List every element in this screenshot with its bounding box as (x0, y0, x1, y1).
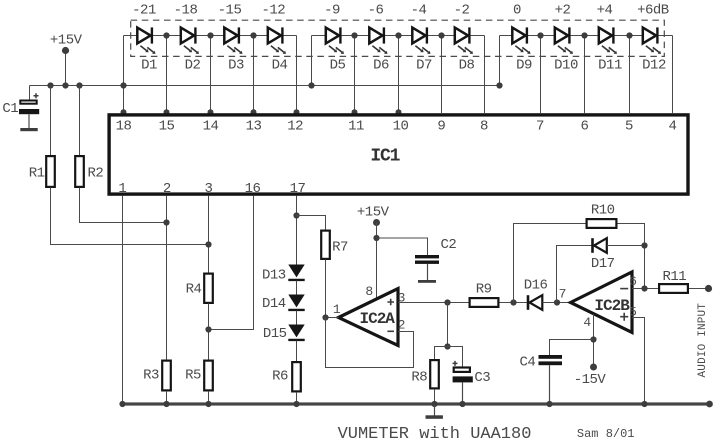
ground under C1 (20, 128, 37, 131)
junction LED row x=441.5 (438, 32, 444, 38)
wire IC2B pin 4 to -15V (593, 314, 595, 367)
pin dot IC1 top x=253.5 (251, 109, 257, 115)
junction +15V rail x=65.5 (62, 82, 68, 88)
svg-text:5: 5 (625, 119, 633, 135)
svg-text:10: 10 (393, 119, 409, 135)
pin dot IC1 top x=210.5 (208, 109, 214, 115)
wire LED group2 anode feed (311, 36, 313, 86)
junction pin3/R8C3 tap (444, 299, 450, 305)
label D4 (272, 57, 288, 73)
diode D15 (288, 325, 304, 340)
wire LED junction to IC1 pin 15 (166, 36, 168, 114)
label D3 (228, 57, 244, 73)
wire LED chain D1-D4 to pin 12 (124, 36, 297, 114)
pin 3 IC1 bottom (205, 181, 213, 197)
resistor R2 body (75, 156, 84, 187)
label R3 (143, 368, 159, 384)
svg-text:D10: D10 (554, 57, 578, 73)
capacitor C2 (415, 255, 439, 280)
svg-text:VUMETER with UAA180: VUMETER with UAA180 (338, 425, 532, 443)
LED D10 (555, 27, 573, 54)
svg-text:R3: R3 (143, 368, 159, 384)
IC U1 (IC1 UAA180) body (109, 115, 688, 194)
pin 2 IC1 bottom (163, 181, 171, 197)
svg-text:D6: D6 (373, 57, 389, 73)
label C2 (440, 237, 456, 253)
resistor R3 body (162, 361, 171, 391)
svg-text:3: 3 (205, 181, 213, 197)
svg-text:D16: D16 (524, 278, 548, 294)
svg-text:0: 0 (513, 3, 521, 19)
label C3 (474, 370, 490, 386)
pin 9 IC1 top (437, 119, 445, 135)
wire IC1 pin 16 to R4/R5 node (209, 196, 254, 330)
wire R2 top lead (79, 86, 81, 156)
resistor R7 body (321, 231, 330, 259)
svg-text:R2: R2 (87, 166, 103, 182)
wire to C4 (550, 340, 594, 356)
svg-text:IC1: IC1 (370, 147, 400, 167)
label 0 dB (513, 3, 521, 19)
wire R2 bottom to pin 2 node (80, 188, 167, 223)
node +15V terminal (62, 47, 69, 54)
label IC2A (359, 310, 395, 328)
svg-text:-6: -6 (368, 3, 384, 19)
label -2 dB (454, 3, 470, 19)
wire IC2A feedback loop to pin 2 (326, 318, 414, 368)
wire tap down (447, 303, 449, 347)
svg-text:13: 13 (246, 119, 262, 135)
ground rail (121, 402, 713, 405)
wire D15 to R6 (296, 341, 298, 362)
pin 6 IC1 top (581, 119, 589, 135)
wire IC2A pin 3 to R9 (398, 302, 469, 304)
op-amp U2A (IC2A) (339, 289, 399, 346)
junction ground rail x=549.5 (546, 401, 552, 407)
label D2 (185, 57, 201, 73)
pin 13 IC1 top (246, 119, 262, 135)
svg-text:4: 4 (583, 315, 591, 330)
svg-text:D17: D17 (591, 256, 615, 272)
wire LED junction to IC1 pin 7 (540, 36, 542, 114)
node ground rail right terminal (706, 401, 713, 408)
wire D17 branch from pin 7 (557, 246, 592, 303)
label -15 dB (218, 3, 242, 19)
wire R10 to pin 6 node (618, 224, 645, 289)
wire IC1 pin 3 to R4 (208, 196, 210, 274)
label R9 (476, 282, 492, 298)
svg-text:14: 14 (203, 119, 219, 135)
resistor R4 body (204, 274, 213, 303)
svg-text:-18: -18 (174, 3, 198, 19)
label D7 (416, 57, 432, 73)
pin 2 IC2A (398, 318, 405, 333)
svg-text:+15V: +15V (50, 33, 83, 49)
junction R9/R10 tap (510, 299, 516, 305)
LED D9 (512, 27, 530, 54)
svg-text:7: 7 (559, 286, 566, 301)
pin 5 IC2B (629, 305, 636, 320)
pin dot IC1 top x=123.5 (121, 109, 127, 115)
label D15 (263, 326, 287, 342)
pin 4 IC2B (583, 315, 591, 330)
wire R1 bottom to pin 3 node (51, 188, 209, 245)
junction pin4/C4 (590, 336, 596, 342)
wire R11 to audio input terminal (689, 288, 709, 290)
svg-text:+4: +4 (597, 3, 613, 19)
pin 17 IC1 bottom (290, 181, 306, 197)
label R8 (411, 370, 427, 386)
LED D12 (643, 27, 661, 54)
wire +15V top rail (30, 85, 500, 87)
junction R8/C3 split (444, 343, 450, 349)
capacitor C1 (polarised) (19, 93, 39, 128)
svg-text:-15: -15 (218, 3, 242, 19)
pin 1 IC1 bottom (118, 181, 126, 197)
wire LED group1 anode feed / pin 18 drop (123, 36, 125, 114)
pin 7 IC2B (559, 286, 566, 301)
svg-text:-15V: -15V (574, 372, 607, 388)
label IC1 (370, 147, 400, 167)
svg-text:9: 9 (437, 119, 445, 135)
label -21 dB (132, 3, 156, 19)
svg-text:D4: D4 (272, 57, 288, 73)
junction D17/R10 (641, 242, 647, 248)
label +15V supply (top left) (50, 33, 83, 49)
ground symbol (426, 405, 443, 419)
svg-text:2: 2 (398, 318, 405, 333)
node +15V terminal IC2A (373, 219, 380, 226)
junction LED row x=584.5 (581, 32, 587, 38)
svg-text:11: 11 (348, 119, 364, 135)
svg-text:R1: R1 (29, 166, 45, 182)
pin 4 IC1 top (669, 119, 677, 135)
pin 1 IC2A (333, 302, 341, 317)
resistor R1 body (46, 156, 55, 187)
label C1 (2, 101, 18, 117)
junction +15V/C2 (373, 235, 379, 241)
svg-text:-9: -9 (324, 3, 340, 19)
op-amp U2B (IC2B) (571, 272, 633, 333)
capacitor C4 (539, 355, 563, 403)
svg-text:C1: C1 (2, 101, 18, 117)
diode D13 (288, 265, 304, 280)
svg-text:+6dB: +6dB (637, 3, 669, 19)
wire LED junction to IC1 pin 11 (354, 36, 356, 114)
label +4 dB (597, 3, 613, 19)
label D11 (598, 57, 622, 73)
wire IC1 pin 1 to ground rail (122, 196, 124, 404)
junction LED row x=398.5 (395, 32, 401, 38)
svg-text:-21: -21 (132, 3, 156, 19)
label D10 (554, 57, 578, 73)
pin 3 IC2A (398, 291, 405, 306)
diode D17 (593, 238, 607, 253)
svg-text:D5: D5 (330, 57, 346, 73)
svg-text:-2: -2 (454, 3, 470, 19)
wire IC2A output to node (326, 317, 339, 319)
label R11 (662, 269, 686, 285)
node -15V terminal (590, 364, 597, 371)
LED D3 (224, 27, 242, 54)
svg-text:+15V: +15V (357, 205, 390, 221)
label R5 (185, 368, 201, 384)
LED D6 (369, 27, 387, 54)
svg-text:AUDIO INPUT: AUDIO INPUT (697, 303, 709, 378)
wire D14-D15 (296, 311, 298, 325)
wire LED junction to IC1 pin 13 (253, 36, 255, 114)
svg-text:IC2B: IC2B (594, 297, 630, 315)
pin 16 IC1 bottom (245, 181, 261, 197)
wire LED junction to IC1 pin 9 (441, 36, 443, 114)
label -12 dB (261, 3, 285, 19)
svg-text:D15: D15 (263, 326, 287, 342)
wire R4 to R5 (208, 304, 210, 361)
pin 8 IC1 top (480, 119, 488, 135)
wire up to R10 (514, 224, 586, 303)
svg-text:12: 12 (287, 119, 303, 135)
label D5 (330, 57, 346, 73)
label D1 (141, 57, 157, 73)
pin dot IC1 top x=166.5 (164, 109, 170, 115)
junction LED row x=540.5 (537, 32, 543, 38)
resistor R8 body (430, 360, 439, 388)
junction ground rail x=122.5 (119, 401, 125, 407)
wire IC2B pin 5 to ground rail (632, 318, 645, 404)
label R2 (87, 166, 103, 182)
svg-text:1: 1 (333, 302, 341, 317)
junction LED row x=166.5 (163, 32, 169, 38)
wire LED chain D5-D8 to pin 8 (312, 36, 485, 114)
svg-text:R6: R6 (272, 369, 288, 385)
svg-text:18: 18 (116, 119, 132, 135)
svg-text:R8: R8 (411, 370, 427, 386)
junction LED row x=210.5 (207, 32, 213, 38)
diode D14 (288, 295, 304, 310)
wire R5 bottom lead (208, 391, 210, 403)
wire IC1 pin 2 to R3 (166, 196, 168, 361)
svg-text:D13: D13 (262, 267, 286, 283)
label D9 (516, 57, 532, 73)
svg-text:Sam 8/01: Sam 8/01 (577, 427, 635, 441)
resistor R10 body (587, 219, 617, 228)
wire +15V terminal stub (65, 51, 67, 86)
svg-text:R4: R4 (186, 282, 202, 298)
pin dot IC1 top x=354.5 (352, 109, 358, 115)
svg-text:-4: -4 (411, 3, 427, 19)
pin dot IC1 top x=398.5 (396, 109, 402, 115)
wire D17 to pin6 vertical (607, 245, 645, 247)
svg-text:6: 6 (629, 274, 636, 289)
junction +15V rail x=499.5 (496, 82, 502, 88)
label D13 (262, 267, 286, 283)
wire split to R8 and C3 (435, 347, 463, 367)
junction pin7/D17 tap (554, 299, 560, 305)
junction ground rail x=166.5 (163, 401, 169, 407)
svg-text:-12: -12 (261, 3, 285, 19)
wire LED junction to IC1 pin 5 (629, 36, 631, 114)
svg-text:D14: D14 (262, 296, 286, 312)
resistor R5 body (204, 361, 213, 391)
label D14 (262, 296, 286, 312)
junction pin6/feedback (641, 285, 647, 291)
wire +15V to IC2A pin 8 (376, 223, 378, 300)
junction ground rail x=644.5 (641, 401, 647, 407)
svg-text:D3: D3 (228, 57, 244, 73)
svg-text:R11: R11 (662, 269, 686, 285)
resistor R11 body (659, 284, 688, 293)
svg-text:D12: D12 (642, 57, 666, 73)
label author date (577, 427, 635, 441)
diode D16 (528, 295, 542, 310)
pin 15 IC1 top (159, 119, 175, 135)
junction LED row x=629.5 (626, 32, 632, 38)
pin 8 IC2A (365, 284, 372, 299)
svg-text:3: 3 (398, 291, 405, 306)
LED D11 (599, 27, 617, 54)
label R4 (186, 282, 202, 298)
svg-text:1: 1 (118, 181, 126, 197)
label D17 (591, 256, 615, 272)
svg-text:7: 7 (536, 119, 544, 135)
svg-text:17: 17 (290, 181, 306, 197)
junction LED row x=354.5 (351, 32, 357, 38)
svg-text:C2: C2 (440, 237, 456, 253)
pin 14 IC1 top (203, 119, 219, 135)
dashed LED display box (131, 20, 665, 56)
svg-text:R9: R9 (476, 282, 492, 298)
wire R1 top lead (50, 86, 52, 156)
pin 12 IC1 top (287, 119, 303, 135)
junction ground rail x=296.5 (293, 401, 299, 407)
LED D8 (455, 27, 473, 54)
label +15V supply (IC2A) (357, 205, 390, 221)
svg-text:C4: C4 (519, 354, 535, 370)
junction ground rail x=434.5 (431, 401, 437, 407)
pin 7 IC1 top (536, 119, 544, 135)
label C4 (519, 354, 535, 370)
svg-text:D2: D2 (185, 57, 201, 73)
svg-text:8: 8 (365, 284, 372, 299)
label D8 (459, 57, 475, 73)
svg-text:C3: C3 (474, 370, 490, 386)
wire LED junction to IC1 pin 14 (210, 36, 212, 114)
label -15V supply (574, 372, 607, 388)
svg-text:+2: +2 (555, 3, 571, 19)
wire R7 bottom to IC2A output node (325, 260, 327, 318)
label title (338, 425, 532, 443)
wire LED junction to IC1 pin 10 (398, 36, 400, 114)
ground under C2 (418, 280, 436, 283)
svg-text:R7: R7 (332, 240, 348, 256)
junction LED row x=253.5 (250, 32, 256, 38)
label -4 dB (411, 3, 427, 19)
svg-text:D9: D9 (516, 57, 532, 73)
wire R6 bottom lead (296, 392, 298, 403)
junction IC2A output/R7 (322, 314, 328, 320)
junction R4/R5/pin16 node (205, 326, 211, 332)
junction pin3/R1 node (205, 241, 211, 247)
capacitor C3 (polarised) (453, 361, 473, 403)
wire C1 top lead (29, 86, 31, 100)
wire IC1 pin 17 to D13 (296, 196, 298, 266)
wire LED junction to IC1 pin 6 (584, 36, 586, 114)
pin 5 IC1 top (625, 119, 633, 135)
node audio input terminal (705, 285, 712, 292)
pin dot IC1 top x=296.5 (294, 109, 300, 115)
svg-text:R10: R10 (591, 203, 615, 219)
label R6 (272, 369, 288, 385)
wire R8 bottom lead (434, 389, 436, 403)
junction pin17 node (293, 212, 299, 218)
LED D2 (181, 27, 199, 54)
label -9 dB (324, 3, 340, 19)
wire to C2 (377, 238, 428, 256)
label AUDIO INPUT (697, 303, 709, 378)
junction +15V rail x=79.5 (76, 82, 82, 88)
svg-text:D1: D1 (141, 57, 157, 73)
label IC2B (594, 297, 630, 315)
svg-text:IC2A: IC2A (359, 310, 395, 328)
pin 18 IC1 top (116, 119, 132, 135)
junction +15V rail x=123.5 (120, 82, 126, 88)
label D6 (373, 57, 389, 73)
label -18 dB (174, 3, 198, 19)
LED D1 (137, 27, 155, 54)
label +6dB dB (637, 3, 669, 19)
wire IC2B pin 6 to R11 (632, 288, 658, 290)
resistor R6 body (292, 362, 301, 391)
label D16 (524, 278, 548, 294)
wire D13-D14 (296, 281, 298, 295)
svg-text:2: 2 (163, 181, 171, 197)
pin 11 IC1 top (348, 119, 364, 135)
svg-text:D7: D7 (416, 57, 432, 73)
svg-text:D11: D11 (598, 57, 622, 73)
LED D7 (412, 27, 430, 54)
svg-text:R5: R5 (185, 368, 201, 384)
svg-text:D8: D8 (459, 57, 475, 73)
wire D16 to IC2B pin 7 (543, 302, 571, 304)
svg-text:8: 8 (480, 119, 488, 135)
junction ground rail x=462.5 (459, 401, 465, 407)
LED D5 (326, 27, 344, 54)
junction +15V rail x=311.5 (308, 82, 314, 88)
svg-text:15: 15 (159, 119, 175, 135)
pin 10 IC1 top (393, 119, 409, 135)
junction +15V rail x=50.5 (47, 82, 53, 88)
wire LED group3 anode feed (499, 36, 501, 86)
label R7 (332, 240, 348, 256)
wire LED chain D9-D12 to pin 4 (500, 36, 673, 114)
resistor R9 body (470, 298, 499, 307)
label R1 (29, 166, 45, 182)
label +2 dB (555, 3, 571, 19)
svg-text:16: 16 (245, 181, 261, 197)
svg-text:4: 4 (669, 119, 677, 135)
label D12 (642, 57, 666, 73)
junction pin2/R2 node (163, 219, 169, 225)
wire R3 bottom lead (166, 391, 168, 403)
wire pin17 node to R7 top (297, 216, 326, 231)
label -6 dB (368, 3, 384, 19)
label R10 (591, 203, 615, 219)
pin 6 IC2B (629, 274, 636, 289)
LED D4 (268, 27, 286, 54)
svg-text:6: 6 (581, 119, 589, 135)
junction ground rail x=208.5 (205, 401, 211, 407)
wire R9 to D16 (500, 302, 528, 304)
